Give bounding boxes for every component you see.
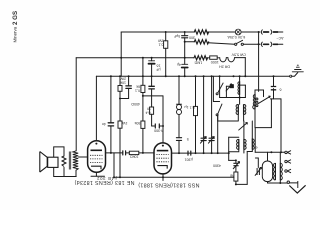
link cap y126 [155,124,159,128]
svg-text:4n: 4n [102,122,106,126]
resistor box1 x120 lower [118,121,122,128]
vertical x110.9 (4n line) [110,76,112,122]
wire anode feed line y57.8 [76,57,194,59]
value label [102,122,106,126]
trimmer stub [255,158,258,168]
svg-text:DR 2H: DR 2H [219,64,230,68]
svg-text:1μ: 1μ [184,105,188,109]
vertical x151.6 chain [151,58,153,61]
value label [219,64,230,68]
value label [213,164,221,168]
vertical x217.7 [217,115,219,153]
svg-text:0,1: 0,1 [190,106,195,110]
resistor zigzag2 [194,40,208,44]
svg-text:300: 300 [189,36,195,40]
vertical x203.6 [203,76,205,138]
main rail B y76.2 [96,75,289,77]
value label [230,174,234,178]
value label [173,34,180,38]
svg-text:1000: 1000 [211,60,219,64]
svg-text:2W: 2W [120,77,126,81]
tap leads [284,151,286,153]
IF1 B/C winding bottoms to IF2 [237,114,239,121]
tube2 bottom stub [162,174,164,181]
wire connector row1 tail [279,31,283,33]
svg-text:4μ: 4μ [177,63,181,67]
tube1 grid entry [79,156,88,158]
cap 5uF [182,36,188,38]
wire connector row2 tail [279,43,283,45]
value label [74,179,134,185]
blob lead [226,85,230,87]
y97.5 horizontal [220,97,246,99]
resistor zigzag speaker [62,156,66,167]
value label [154,129,163,133]
svg-text:5: 5 [187,137,189,141]
svg-text:6k: 6k [136,85,140,89]
tube1 bottom stub [95,172,97,176]
wire rail A top y32 [121,31,194,33]
cap 6uF x151.6 [149,86,154,89]
tube U1 output [88,141,106,173]
wire switch to connector row2 [244,43,261,45]
taps [285,151,287,153]
value label [96,176,117,181]
y121 horizontal [221,120,238,122]
horizontal y95.9 [143,95,163,97]
svg-text:50k: 50k [134,121,140,125]
value label [211,60,219,64]
speaker bottom wire [54,168,76,177]
speaker [40,152,47,173]
component 8-circles x179 [176,103,181,105]
switch cluster mid: x213.4 [212,76,214,101]
svg-text:48: 48 [230,174,234,178]
value label [130,155,139,159]
cap x128.6 [126,86,131,89]
x281 vertical [280,99,282,152]
cap feed from rail [273,76,275,86]
winding2 x281.9 [280,163,282,180]
resistor box2 x142.9 lower [141,121,145,128]
output transformer core [69,152,70,170]
svg-text:e: e [256,146,258,150]
trimmer cap variable left [257,168,259,175]
windings B C (IF1) [236,104,238,114]
value label [184,105,188,109]
resistor box x120 upper [118,86,122,92]
resistor box x142.9 upper [141,85,145,92]
grid feed bend: rail left end down to tube1 top cap [95,76,97,141]
choke DR 2H [220,58,246,62]
svg-text:6: 6 [280,87,282,91]
vertical x165.7 [165,32,167,41]
svg-text:μ301: μ301 [185,158,193,162]
IF2 winding top leads [243,121,245,139]
transformer winding [73,151,78,170]
svg-text:CW 5,5V: CW 5,5V [231,52,246,56]
svg-text:16: 16 [157,63,161,67]
osc coil bottom left vertical [254,109,256,128]
y98.9 horizontal [270,98,281,100]
svg-text:4300: 4300 [213,164,221,168]
value label [280,87,282,91]
wire rail A right of resistor to lamp [208,31,236,33]
outer box left edge x76 [75,58,77,151]
value label [227,35,245,39]
vertical x163 tube2 top cap [162,96,164,143]
resistor box 0.4W x151.6 [150,107,154,114]
switch lever2 [216,114,218,116]
winding2 top lead [279,152,281,163]
wire vertical feed left x121 [120,32,122,76]
components layer [108,29,303,155]
winding inside racetrack [273,163,275,180]
x219.6 vertical [219,76,221,97]
x271.4 vertical [270,99,272,128]
bus left vertical [113,153,115,177]
vertical x120 chain [119,76,121,85]
trimmer chain x235.9 [235,160,237,163]
value label [146,107,151,115]
cap 16uF [149,60,155,62]
IF2 trimmer arrow [238,123,247,131]
wire rail-to-earth right end [292,73,298,77]
svg-text:W: W [147,107,151,111]
tube U2 [154,143,172,174]
value label [158,39,164,47]
resistor box x195.5 [194,106,198,115]
resistor box x235.9 [234,172,238,181]
trimmer x203.6 [201,138,206,140]
osc coil top link [255,90,264,95]
value label [187,137,189,141]
vertical x195.5 [195,76,197,106]
svg-text:400Ω: 400Ω [131,102,140,106]
value label [134,121,140,125]
value label [189,36,195,40]
trimmer cap x235.9 [233,163,238,165]
value label [131,102,140,106]
cap 6 x273.5 [271,87,276,90]
resistor box 0.1 2W [164,41,168,49]
value label [120,77,126,85]
resistor box 1000ohm [210,56,218,59]
coupling cap y152.9 (tube1 side) [123,151,126,155]
value label [185,158,193,162]
wire lamp to connector row1 [241,31,260,33]
connector pair row2 [260,42,263,46]
trimmer x211.6 [209,138,214,140]
vertical x211.6 [211,76,213,138]
svg-text:10kΩ: 10kΩ [130,155,139,159]
cap 4uF x184.7 [182,63,188,65]
tube2 grid entry [153,153,155,157]
wire choke out vertical x245.3 [244,58,246,77]
mains switch [235,43,237,45]
svg-text:4·300: 4·300 [154,129,163,133]
value label [256,146,258,150]
box bottom [255,127,271,129]
connector pair row1 [260,30,263,34]
osc coil area: racetrack top lead [267,152,269,161]
svg-text:1MΩ: 1MΩ [194,60,202,64]
value label [194,60,202,64]
svg-text:2 GS: 2 GS [12,11,19,25]
coupling cap y153.1 (tube2 side) [188,151,191,155]
winding A x239 [238,82,240,95]
vertical x128.6 cap branch [128,76,130,86]
cap 4n x110.9 [108,123,113,126]
blob [230,85,233,88]
speaker top wire [54,147,64,157]
tube2 anode line y153.1 [172,152,229,154]
svg-text:NSS 1831(RENS 1881): NSS 1831(RENS 1881) [138,182,199,188]
svg-text:NE 183 (RENS 1823d): NE 183 (RENS 1823d) [74,179,134,185]
value label [190,106,195,110]
lamp [235,29,241,35]
vertical x179 [178,76,180,104]
svg-text:6,3V 0,25A: 6,3V 0,25A [227,35,245,39]
vertical x184.7 (5uF/4uF) [184,32,186,36]
winding D leads [263,95,265,97]
value label [177,63,181,67]
Minerva 2 GS vertical branding [12,11,19,43]
transformer bottom lead [75,170,77,176]
svg-text:1W: 1W [122,121,128,125]
value label [138,182,199,188]
winding D osc coil tapped [253,95,255,109]
trimmer arrow1 [226,84,232,91]
IF1 winding A leads [239,76,241,81]
labels (rotated 180 like original print) [74,34,283,187]
coupling resistor horizontal [129,151,139,154]
IF2 bottom leads [229,149,239,152]
value label [135,85,140,93]
y126 link [152,125,155,127]
value label [155,63,160,71]
svg-text:5μF: 5μF [173,34,180,38]
svg-text:2W: 2W [158,39,164,43]
vertical x142.9 [142,58,144,76]
switch lever1 [216,93,218,95]
ground top right [292,65,303,72]
y152.3 horizontal [255,151,285,153]
wire zigzag2 to switch [208,43,235,45]
resistor zigzag1 (heater) [194,30,208,34]
cap x179 y138.9 [176,138,181,141]
bottom bus y177.2 [114,176,234,178]
svg-text:AC~: AC~ [276,36,283,40]
bottoms y183 [268,182,288,183]
coupling line y152.9 tube1-tube2 [106,152,122,154]
IF2 windings [237,139,239,149]
resistor 1M zigzag3 [194,56,208,60]
earth bottom right [287,181,289,183]
resistor bottom lead [63,167,65,176]
racetrack [262,161,272,182]
wire second heater line y42 [185,41,195,43]
horizontal y160.6 [229,159,236,161]
value label [122,121,128,125]
svg-text:Minerva: Minerva [13,26,18,42]
wire mains vertical x258.6 [258,32,260,91]
value label [276,36,283,40]
value label [231,52,246,56]
descent to y152.3 [254,128,256,153]
